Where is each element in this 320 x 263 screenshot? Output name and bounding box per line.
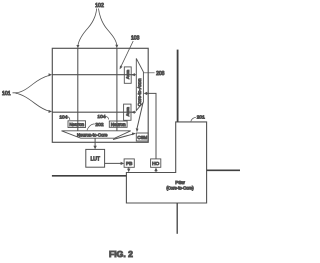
svg-text:103: 103: [131, 36, 140, 42]
wire: dendrite column 1: [77, 48, 79, 131]
wire: HO up and left into core-to-axon funnel: [145, 93, 156, 158]
wire: PSw up into HO arrow: [155, 171, 157, 173]
wire: dendrite column 2: [116, 48, 118, 131]
svg-text:202: 202: [95, 122, 103, 128]
arrowhead into axon row 1: [131, 73, 135, 76]
HO block: [151, 159, 161, 167]
svg-text:LUT: LUT: [90, 156, 99, 162]
axon block (row2): [124, 104, 131, 120]
svg-text:Neuron: Neuron: [69, 122, 84, 127]
wire: core-to-core north: [177, 50, 179, 122]
core-to-axon funnel 208: [136, 58, 143, 110]
core box (crossbar array outline): [52, 48, 148, 142]
wire: funnel to CSM arrow: [137, 103, 143, 129]
svg-text:PB: PB: [126, 161, 132, 167]
svg-text:CSM: CSM: [137, 135, 147, 140]
neuron block 104 (col2): [109, 121, 127, 127]
wire: PB down into PSw arrow: [128, 167, 130, 168]
svg-text:102: 102: [95, 3, 104, 9]
svg-text:FIG. 2: FIG. 2: [109, 249, 133, 259]
wire: core-to-core east: [207, 169, 240, 171]
axon block 103 (row1): [124, 67, 131, 83]
wire: neuron-to-core funnel to CSM arrow: [113, 134, 134, 140]
svg-text:201: 201: [197, 114, 205, 120]
svg-text:Axon: Axon: [125, 107, 130, 116]
arrowhead into axon row 2: [131, 111, 135, 114]
wire: axon row 2: [52, 111, 136, 113]
svg-text:HO: HO: [152, 161, 159, 167]
svg-text:101: 101: [2, 91, 11, 97]
wire: core-to-core west: [52, 175, 127, 177]
svg-text:Neuron-to-Core: Neuron-to-Core: [77, 133, 108, 138]
svg-text:104: 104: [97, 114, 105, 120]
svg-text:PSw: PSw: [175, 180, 185, 185]
svg-text:Core-to-Axon: Core-to-Axon: [137, 78, 142, 106]
LUT block: [86, 149, 105, 167]
svg-text:Axon: Axon: [125, 70, 130, 79]
neuron-to-core funnel 202: [62, 131, 131, 138]
wire: axon row 1: [52, 74, 136, 76]
neuron block 104 (col1): [68, 121, 86, 128]
svg-text:Neuron: Neuron: [111, 122, 126, 127]
svg-text:104: 104: [59, 114, 67, 120]
PSw block 201 (L-shaped): [126, 122, 206, 203]
PB block: [124, 159, 134, 167]
svg-text:208: 208: [156, 71, 165, 77]
wire: funnel to LUT arrow: [94, 138, 96, 148]
svg-text:(Core-to-Core): (Core-to-Core): [166, 186, 194, 191]
CSM block: [136, 133, 148, 141]
wire: core-to-core south: [176, 203, 178, 234]
wire: LUT to PB arrow: [105, 162, 123, 164]
